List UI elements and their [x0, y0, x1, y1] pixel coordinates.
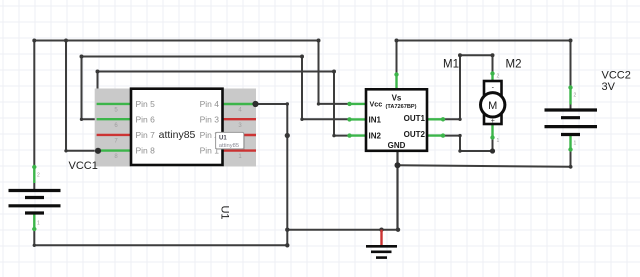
driver labels: [369, 93, 426, 150]
svg-text:IN2: IN2: [369, 131, 382, 140]
svg-text:U1: U1: [219, 136, 227, 142]
svg-text:M2: M2: [506, 59, 522, 71]
tooltip U1 attiny85: [216, 132, 245, 150]
svg-text:3V: 3V: [602, 81, 616, 93]
wire VCC1 battery top lead: [33, 41, 35, 191]
wire driver Vs top lead: [396, 41, 398, 90]
svg-text:M: M: [488, 100, 497, 112]
driver pin terminal dots: [32, 71, 573, 231]
svg-text:VCC2: VCC2: [602, 70, 631, 82]
battery VCC2 3V: [545, 110, 598, 135]
svg-text:OUT2: OUT2: [404, 130, 426, 139]
svg-text:GND: GND: [388, 141, 406, 150]
wire Pin4 to ground vertical: [256, 104, 288, 245]
svg-text:1: 1: [574, 141, 577, 147]
wire rail2 Pin6-IN1: [82, 57, 349, 120]
wire GND to VCC2 battery negative: [398, 165, 571, 167]
attiny85 pin 8: [97, 149, 131, 151]
svg-text:Pin 3: Pin 3: [200, 114, 220, 124]
junction big terminal dots: [395, 148, 496, 168]
svg-text:M1: M1: [443, 59, 459, 71]
wire VCC2 battery bottom lead: [569, 136, 571, 167]
svg-text:2: 2: [37, 173, 40, 179]
wire rail to attiny85 Pin 8: [66, 41, 98, 151]
wire OUT2 to motor bottom: [444, 124, 493, 151]
svg-text:Pin 5: Pin 5: [136, 99, 156, 109]
wire OUT1 to motor top bracket: [444, 55, 493, 119]
svg-text:attiny85: attiny85: [219, 143, 239, 149]
attiny85 chip body U1: [131, 89, 223, 165]
junction dot at attiny85 pin 8: [95, 148, 101, 154]
junction dot at attiny85 pin 4: [252, 101, 258, 107]
svg-text:Pin 7: Pin 7: [136, 130, 156, 140]
attiny85 pin numbers: [114, 108, 242, 161]
motor driver chip U2 TA7267BP: [366, 89, 427, 151]
wire VCC2 battery top lead: [570, 41, 572, 111]
attiny85 pin 5: [97, 103, 131, 105]
battery VCC2 tiny polarity labels: [574, 93, 577, 147]
svg-text:IN1: IN1: [369, 115, 382, 124]
attiny85 pin 3: [223, 118, 257, 120]
attiny85 pin 1: [223, 149, 257, 151]
svg-text:Pin 8: Pin 8: [136, 146, 156, 156]
svg-text:(TA7267BP): (TA7267BP): [386, 104, 417, 110]
svg-text:2: 2: [497, 74, 500, 80]
wire Vcc feed: [319, 41, 349, 104]
attiny85 pin 2: [223, 134, 257, 136]
svg-text:Vs: Vs: [392, 93, 402, 102]
motor M body: [481, 81, 505, 125]
svg-text:2: 2: [574, 93, 577, 99]
attiny85 pin 6: [97, 118, 131, 120]
attiny85 pin 7: [97, 134, 131, 136]
junction corner dots: [32, 39, 572, 248]
battery VCC1: [9, 191, 61, 214]
wire rail3 Pin5-IN2: [98, 72, 349, 136]
svg-text:1: 1: [37, 221, 40, 227]
svg-text:U1: U1: [219, 205, 231, 219]
svg-text:VCC1: VCC1: [69, 160, 98, 172]
ground symbol: [366, 230, 397, 258]
wire net VCC1 top rail: [34, 40, 318, 42]
wire driver GND lead vertical: [396, 151, 398, 230]
wire ground bus horizontal: [287, 229, 398, 231]
svg-text:OUT1: OUT1: [404, 114, 426, 123]
attiny85 pin labels: [136, 99, 220, 156]
svg-text:Vcc: Vcc: [370, 100, 383, 109]
wire VCC1 battery bottom to ground: [34, 214, 287, 246]
svg-text:1: 1: [497, 138, 500, 144]
svg-text:Pin 6: Pin 6: [136, 114, 156, 124]
attiny85 U1 pin bands: [95, 89, 256, 167]
svg-text:+: +: [491, 118, 495, 125]
battery VCC1 tiny polarity labels: [37, 173, 40, 227]
driver U2 pin stubs: [349, 104, 445, 136]
attiny85 pin 4: [223, 103, 257, 105]
svg-text:Pin 4: Pin 4: [200, 99, 220, 109]
svg-text:attiny85: attiny85: [159, 129, 196, 141]
wire net VCC2 top rail: [397, 40, 571, 42]
